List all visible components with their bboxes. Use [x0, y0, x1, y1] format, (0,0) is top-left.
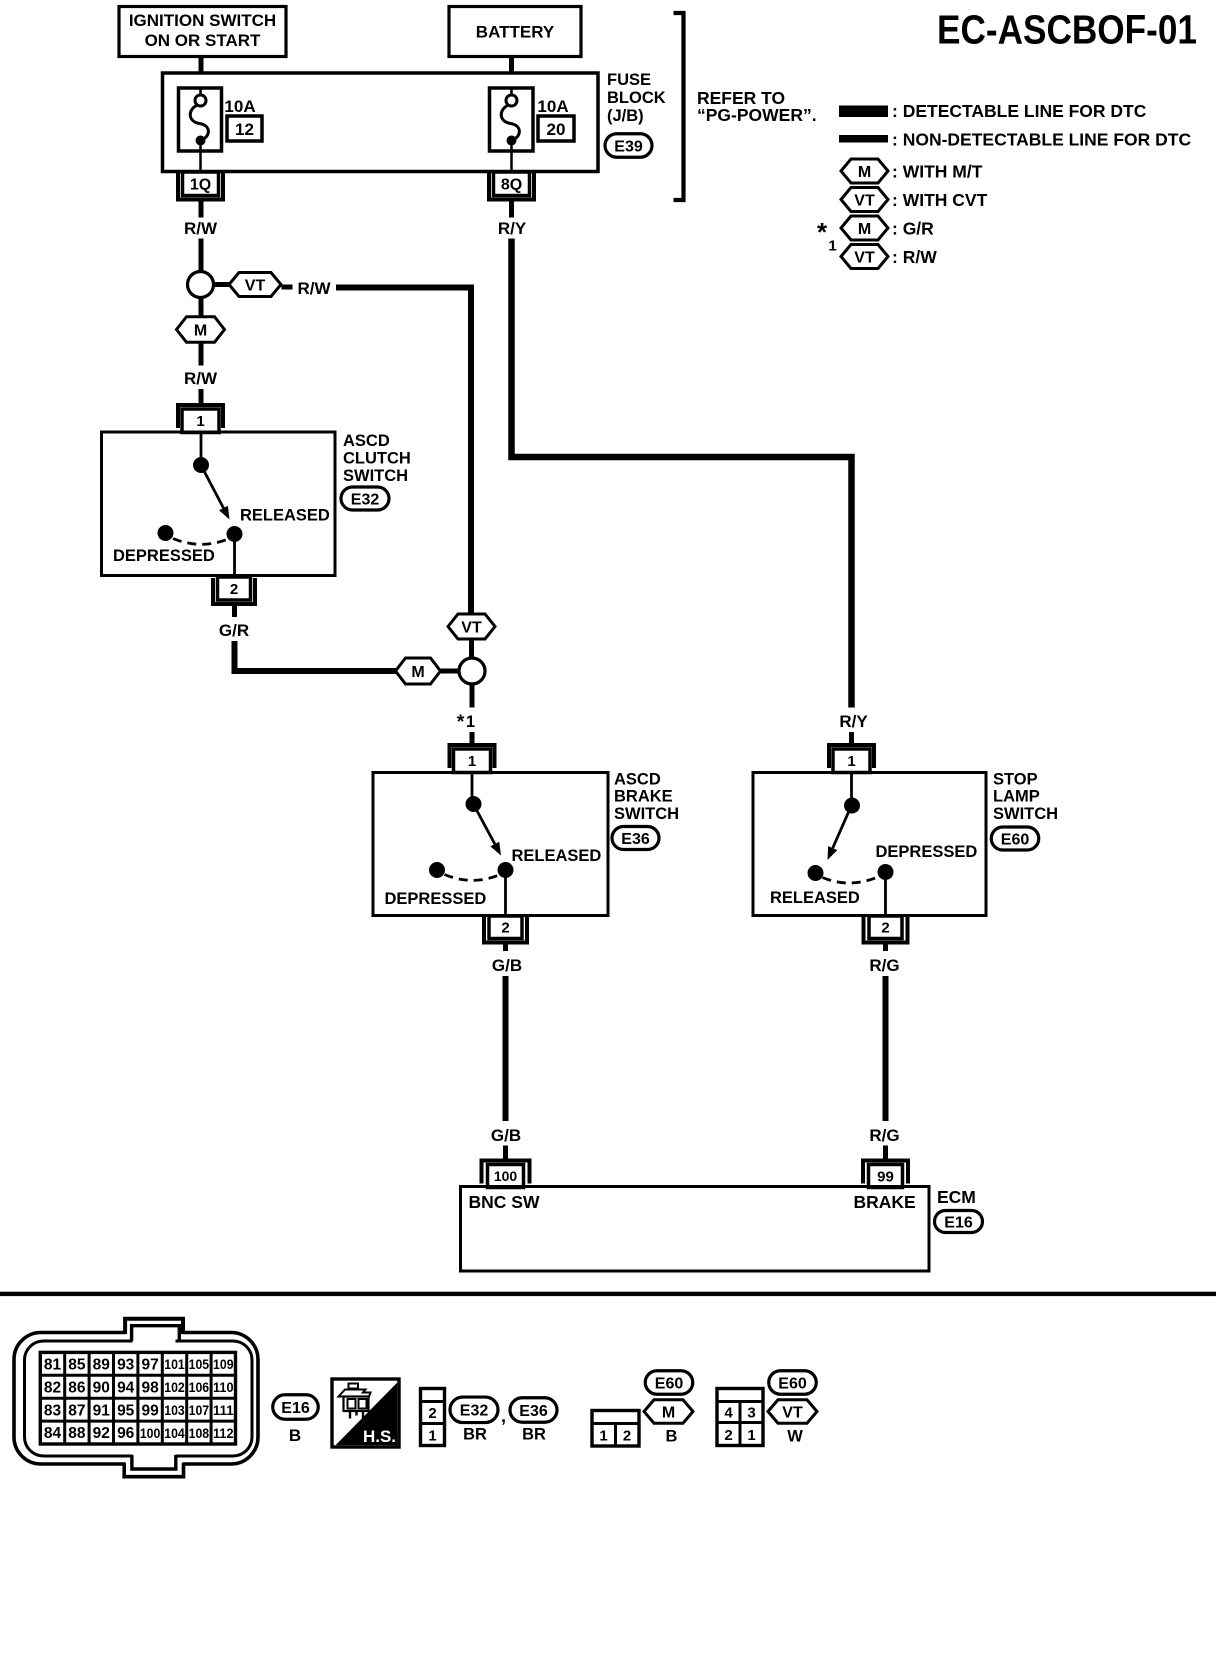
- wire 8Q down: [509, 201, 514, 218]
- option tag VT: [229, 273, 281, 297]
- svg-text:88: 88: [68, 1425, 86, 1442]
- svg-text:BR: BR: [522, 1426, 546, 1444]
- svg-text:,: ,: [501, 1406, 506, 1426]
- legend *1 note: [817, 217, 837, 255]
- svg-text:BATTERY: BATTERY: [476, 23, 555, 42]
- svg-text:85: 85: [68, 1356, 86, 1373]
- legend detectable line: [839, 101, 1147, 121]
- svg-text:R/Y: R/Y: [498, 219, 527, 238]
- brake switch pin2 lead: [504, 877, 507, 916]
- fuse block labels FUSE BLOCK (J/B): [607, 71, 666, 125]
- connector pin 1 stop lamp switch: [829, 745, 874, 768]
- separator line: [0, 1292, 1216, 1296]
- svg-text:2: 2: [428, 1405, 436, 1422]
- svg-text:“PG-POWER”.: “PG-POWER”.: [697, 105, 817, 125]
- wire G/B long run: [503, 976, 509, 1121]
- ASCD clutch switch box E32: [102, 432, 336, 576]
- fuse block J/B box E39: [163, 73, 599, 172]
- svg-text:VT: VT: [461, 619, 482, 636]
- svg-text:: R/W: : R/W: [892, 247, 937, 267]
- svg-text:111: 111: [213, 1402, 234, 1418]
- stop lamp arm arrow: [833, 811, 849, 848]
- wire 1Q down: [199, 201, 204, 218]
- svg-text:R/Y: R/Y: [839, 712, 868, 731]
- connector tag E60 with M: [644, 1371, 693, 1446]
- svg-text:IGNITION SWITCH: IGNITION SWITCH: [129, 11, 276, 30]
- svg-text:SWITCH: SWITCH: [343, 467, 408, 485]
- ECM connector terminal grid: [40, 1352, 235, 1444]
- connector pin 2 stop lamp switch: [869, 916, 902, 939]
- svg-text:12: 12: [235, 120, 254, 139]
- svg-text:BNC SW: BNC SW: [469, 1192, 540, 1212]
- wire to clutch switch pin 1: [199, 389, 204, 405]
- wire G/R to M tag: [235, 641, 398, 671]
- svg-text:: NON-DETECTABLE LINE FOR DTC: : NON-DETECTABLE LINE FOR DTC: [892, 130, 1191, 150]
- svg-text:EC-ASCBOF-01: EC-ASCBOF-01: [937, 7, 1197, 53]
- svg-text:93: 93: [117, 1356, 135, 1373]
- fuse 12 10A: [179, 88, 263, 170]
- svg-text:CLUTCH: CLUTCH: [343, 450, 411, 468]
- svg-text:89: 89: [93, 1356, 111, 1373]
- legend *1 CVT R/W: [841, 245, 937, 269]
- svg-text:106: 106: [189, 1379, 210, 1395]
- svg-text:ASCD: ASCD: [614, 771, 661, 789]
- svg-text:B: B: [289, 1426, 301, 1445]
- svg-text:ON OR START: ON OR START: [145, 31, 261, 50]
- svg-text:2: 2: [501, 920, 509, 937]
- svg-text:2: 2: [881, 920, 889, 937]
- svg-text:VT: VT: [245, 277, 266, 294]
- clutch switch dashed travel arc: [173, 539, 228, 545]
- power source box BATTERY: [449, 7, 581, 57]
- wire R/Y battery feed to stop lamp switch: [512, 239, 852, 708]
- clutch switch common contact: [193, 457, 209, 473]
- svg-text:B: B: [666, 1428, 678, 1446]
- stop lamp switch box E60: [753, 773, 986, 916]
- svg-text:108: 108: [189, 1425, 210, 1441]
- svg-text:LAMP: LAMP: [993, 788, 1040, 806]
- connector tag E16: [935, 1211, 983, 1233]
- brake switch common contact: [466, 796, 482, 812]
- brake switch arm arrow: [476, 809, 495, 844]
- svg-text:1: 1: [196, 413, 204, 430]
- svg-text:E32: E32: [351, 491, 380, 508]
- svg-text:109: 109: [213, 1356, 234, 1372]
- stop lamp released contact: [808, 865, 824, 881]
- legend with M/T: [841, 159, 983, 183]
- connector pin 1 ASCD brake switch: [450, 745, 495, 768]
- wire clutch pin2 down: [232, 606, 237, 618]
- option tag M: [177, 317, 225, 343]
- svg-text:82: 82: [44, 1379, 61, 1396]
- stop lamp depressed contact: [878, 864, 894, 880]
- legend *1 M/T G/R: [841, 216, 934, 240]
- svg-text:84: 84: [44, 1425, 62, 1442]
- wire M tag to junction 2: [441, 669, 460, 674]
- svg-text:R/W: R/W: [184, 219, 218, 238]
- svg-text:100: 100: [140, 1425, 161, 1441]
- brake switch pin1 lead: [471, 773, 474, 798]
- svg-text:R/G: R/G: [869, 956, 899, 975]
- svg-text:1: 1: [468, 753, 476, 770]
- svg-text:VT: VT: [782, 1404, 803, 1421]
- note REFER TO PG-POWER: [697, 88, 817, 125]
- svg-text:M: M: [858, 164, 871, 181]
- wire battery to fuse block: [509, 57, 514, 76]
- svg-text:1: 1: [599, 1428, 607, 1445]
- legend with CVT: [841, 188, 988, 212]
- wire junction to VT tag: [214, 282, 231, 287]
- wire *1 to pin 1: [470, 732, 475, 746]
- wire junction to M tag: [199, 298, 204, 319]
- svg-text:E16: E16: [944, 1214, 973, 1231]
- svg-text:E16: E16: [281, 1400, 310, 1417]
- svg-text:RELEASED: RELEASED: [240, 507, 330, 525]
- svg-text:86: 86: [68, 1379, 86, 1396]
- svg-text:M: M: [858, 221, 871, 238]
- stop lamp switch connector face view (pins 4 3 2 1): [717, 1389, 763, 1446]
- svg-text:95: 95: [117, 1402, 135, 1419]
- svg-text:E60: E60: [778, 1375, 807, 1392]
- brake switch released contact: [498, 862, 514, 878]
- svg-text:SWITCH: SWITCH: [993, 805, 1058, 823]
- svg-text:8Q: 8Q: [501, 177, 522, 194]
- svg-text:BRAKE: BRAKE: [854, 1192, 916, 1212]
- svg-text:DEPRESSED: DEPRESSED: [385, 890, 487, 908]
- svg-text:90: 90: [93, 1379, 110, 1396]
- svg-text:H.S.: H.S.: [363, 1427, 396, 1446]
- svg-text:4: 4: [724, 1405, 733, 1422]
- svg-text:RELEASED: RELEASED: [770, 889, 860, 907]
- svg-text:83: 83: [44, 1402, 62, 1419]
- svg-text:87: 87: [68, 1402, 85, 1419]
- connector tags E32 , E36: [450, 1397, 557, 1443]
- svg-text:E39: E39: [614, 138, 643, 155]
- stop lamp common contact: [844, 798, 860, 814]
- svg-text:99: 99: [877, 1168, 894, 1185]
- svg-text:: DETECTABLE LINE FOR DTC: : DETECTABLE LINE FOR DTC: [892, 101, 1147, 121]
- svg-text:ECM: ECM: [937, 1187, 976, 1207]
- svg-text:101: 101: [164, 1356, 185, 1372]
- svg-text:E60: E60: [1001, 831, 1030, 848]
- wire ignition switch to fuse block: [199, 57, 204, 76]
- svg-text:3: 3: [747, 1405, 755, 1422]
- svg-text:*: *: [457, 711, 465, 733]
- clutch switch released contact: [227, 526, 243, 542]
- svg-text:ASCD: ASCD: [343, 432, 390, 450]
- connector tag E60: [991, 827, 1039, 850]
- ECM box E16: [461, 1187, 930, 1272]
- option tag M (G/R wire): [396, 658, 441, 684]
- wire R/G to ECM pin 99: [883, 1146, 888, 1162]
- labels ASCD CLUTCH SWITCH: [343, 432, 411, 485]
- ASCD brake switch box E36: [373, 773, 608, 916]
- svg-text:R/G: R/G: [869, 1126, 899, 1145]
- option tag VT (branch): [448, 614, 495, 639]
- svg-text:112: 112: [213, 1425, 234, 1441]
- svg-text:2: 2: [724, 1427, 732, 1444]
- svg-text:1: 1: [466, 713, 475, 731]
- connector pin 2 ASCD brake switch: [489, 916, 522, 939]
- connector tag E16 (face view): [273, 1395, 319, 1445]
- stop lamp pin2 lead: [884, 879, 887, 916]
- connector tag E60 with VT: [768, 1371, 817, 1446]
- svg-text:DEPRESSED: DEPRESSED: [113, 547, 215, 565]
- stop lamp switch connector face view (pins 1 2): [592, 1411, 639, 1447]
- connector pin 99 ECM BRAKE: [863, 1161, 908, 1184]
- svg-text:G/B: G/B: [492, 956, 522, 975]
- labels ASCD BRAKE SWITCH: [614, 771, 679, 824]
- svg-text:M: M: [194, 322, 207, 339]
- svg-text:20: 20: [547, 120, 566, 139]
- svg-text:G/R: G/R: [219, 621, 249, 640]
- legend non-detectable line: [839, 130, 1191, 150]
- svg-text:W: W: [787, 1428, 803, 1446]
- svg-text:VT: VT: [854, 192, 875, 209]
- svg-text:2: 2: [623, 1428, 631, 1445]
- svg-text:RELEASED: RELEASED: [512, 847, 602, 865]
- svg-text:94: 94: [117, 1379, 135, 1396]
- switch connector face view (pins 2/1): [421, 1389, 445, 1446]
- svg-text:104: 104: [164, 1425, 185, 1441]
- wire branch R/W to ASCD brake switch: [282, 285, 293, 290]
- svg-text:102: 102: [164, 1379, 185, 1395]
- svg-text:1: 1: [828, 238, 836, 255]
- fuse 20 10A: [490, 88, 575, 170]
- svg-text:(J/B): (J/B): [607, 107, 644, 125]
- svg-text:107: 107: [189, 1402, 210, 1418]
- svg-text:VT: VT: [854, 249, 875, 266]
- svg-text:R/W: R/W: [297, 279, 331, 298]
- svg-text:96: 96: [117, 1425, 135, 1442]
- wire stop pin2 down: [883, 944, 888, 951]
- connector pin 100 ECM BNC SW: [482, 1161, 530, 1184]
- wire label *1: [457, 711, 475, 733]
- svg-text:: G/R: : G/R: [892, 219, 934, 239]
- svg-text:91: 91: [93, 1402, 111, 1419]
- clutch switch pin2 lead: [233, 541, 236, 576]
- reference bracket: [674, 13, 684, 200]
- wire M tag down: [199, 343, 204, 366]
- wire R/G long run: [883, 976, 889, 1121]
- svg-text:G/B: G/B: [491, 1126, 521, 1145]
- svg-text:E60: E60: [655, 1375, 684, 1392]
- svg-text:99: 99: [141, 1402, 159, 1419]
- svg-text:92: 92: [93, 1425, 110, 1442]
- clutch switch pin1 lead: [200, 432, 203, 458]
- harness side view icon H.S.: [332, 1379, 399, 1447]
- svg-text:10A: 10A: [537, 97, 568, 116]
- svg-text:: WITH CVT: : WITH CVT: [892, 190, 988, 210]
- svg-text:81: 81: [44, 1356, 62, 1373]
- junction node circle 2: [459, 658, 485, 684]
- stop lamp dashed travel arc: [823, 877, 880, 884]
- wire R/Y to stop lamp pin 1: [849, 732, 854, 746]
- wire G/B to ECM pin 100: [503, 1146, 508, 1162]
- svg-text:100: 100: [494, 1168, 518, 1184]
- svg-text:10A: 10A: [224, 97, 255, 116]
- svg-text:STOP: STOP: [993, 771, 1038, 789]
- svg-text:E36: E36: [519, 1403, 548, 1420]
- svg-text:98: 98: [141, 1379, 159, 1396]
- brake switch depressed contact: [429, 862, 445, 878]
- svg-text:105: 105: [189, 1356, 210, 1372]
- ECM connector face view E16: [14, 1319, 258, 1477]
- wire R/W to junction: [199, 239, 204, 273]
- stop lamp pin1 lead: [850, 773, 853, 799]
- clutch switch depressed contact: [158, 525, 174, 541]
- labels STOP LAMP SWITCH: [993, 771, 1058, 824]
- svg-text:E36: E36: [621, 831, 650, 848]
- power source box IGNITION SWITCH ON OR START: [119, 7, 286, 57]
- connector tag E32: [341, 487, 389, 510]
- svg-text:*: *: [817, 217, 828, 247]
- clutch switch arm arrow: [204, 470, 224, 508]
- svg-text:DEPRESSED: DEPRESSED: [876, 843, 978, 861]
- svg-text:E32: E32: [460, 1403, 489, 1420]
- connector pin 1 ASCD clutch switch: [178, 405, 223, 428]
- svg-text:R/W: R/W: [184, 369, 218, 388]
- wire junction2 down: [470, 684, 475, 708]
- svg-text:2: 2: [230, 581, 238, 598]
- connector tag E39: [605, 134, 652, 158]
- wire VT tag to junction 2: [469, 639, 474, 659]
- svg-text:BR: BR: [463, 1426, 487, 1444]
- svg-text:BLOCK: BLOCK: [607, 89, 666, 107]
- svg-text:SWITCH: SWITCH: [614, 805, 679, 823]
- svg-text:1: 1: [847, 753, 855, 770]
- svg-text:BRAKE: BRAKE: [614, 788, 673, 806]
- svg-text:97: 97: [141, 1356, 158, 1373]
- svg-text:110: 110: [213, 1379, 234, 1395]
- wire brake pin2 down: [503, 944, 508, 951]
- svg-text:M: M: [662, 1404, 675, 1421]
- svg-text:M: M: [411, 664, 424, 681]
- svg-text:1: 1: [747, 1427, 755, 1444]
- connector terminal 8Q: [494, 172, 530, 196]
- svg-text:1Q: 1Q: [190, 177, 211, 194]
- connector terminal 1Q: [183, 172, 219, 196]
- svg-text:FUSE: FUSE: [607, 71, 651, 89]
- brake switch dashed travel arc: [445, 875, 500, 881]
- svg-text:: WITH M/T: : WITH M/T: [892, 162, 983, 182]
- svg-text:1: 1: [428, 1428, 436, 1445]
- connector tag E36: [612, 827, 659, 850]
- connector pin 2 ASCD clutch switch: [218, 577, 251, 600]
- junction node circle: [188, 272, 214, 298]
- svg-text:103: 103: [164, 1402, 185, 1418]
